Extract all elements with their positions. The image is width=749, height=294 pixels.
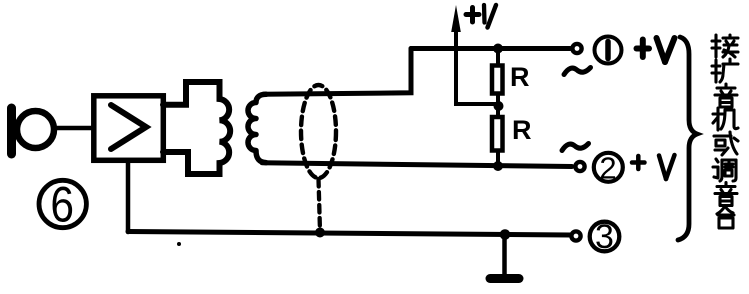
- wire top rail to terminal 1: [411, 46, 570, 51]
- junction +V feed / resistor midpoint: [494, 101, 504, 111]
- transformer T1 primary winding (with amp output stub leads): [163, 82, 230, 174]
- char 调: [713, 159, 736, 181]
- junction ground rail / ground lead: [500, 229, 511, 240]
- svg-text:6: 6: [50, 176, 74, 232]
- wire shield to ground rail (dashed): [319, 179, 321, 231]
- char 音 (2nd): [715, 183, 737, 206]
- speck: [177, 242, 181, 246]
- svg-text:R: R: [512, 115, 532, 145]
- label ~ terminal 2: [562, 144, 589, 151]
- power +V arrow: [451, 5, 461, 104]
- char 或: [714, 132, 738, 155]
- char 扩: [712, 59, 738, 82]
- wire R2 bottom lead: [496, 151, 500, 166]
- wire ground rail to terminal 3: [128, 232, 570, 236]
- node 1 (circled): [595, 37, 622, 64]
- wire bottom rail secondary to terminal 2: [262, 163, 572, 167]
- node 2 (circled): [594, 151, 623, 186]
- brace: [678, 37, 697, 240]
- resistor R2: [492, 117, 503, 151]
- op-amp A1 (amplifier box): [94, 96, 164, 161]
- label 接扩音机或调音台 (vertical Chinese text, drawn strokes): [712, 35, 738, 228]
- label +V terminal 1: [637, 38, 675, 62]
- label + V terminal 2: [632, 155, 675, 179]
- wire mic to amp: [55, 126, 93, 131]
- svg-text:2: 2: [599, 151, 616, 186]
- wire secondary top to bend: [263, 49, 411, 95]
- svg-text:3: 3: [595, 218, 614, 256]
- char 机: [713, 108, 738, 130]
- wire amp bottom to ground rail: [126, 161, 131, 232]
- junction shield / ground rail: [315, 228, 325, 238]
- label +V (supply, handwritten): [466, 5, 496, 28]
- wire +V feed to resistor midpoint: [456, 100, 498, 104]
- figure number 6 (circled): [39, 176, 86, 232]
- svg-text:R: R: [510, 62, 530, 92]
- terminal 3 open circle: [571, 231, 580, 240]
- node 3 (circled): [590, 218, 620, 256]
- ground: [490, 235, 519, 279]
- wire R1 top lead: [496, 49, 500, 64]
- transformer T1 secondary winding: [248, 94, 266, 162]
- char 音: [715, 84, 737, 107]
- junction bottom rail / R2: [493, 161, 503, 171]
- terminal 2 open circle: [575, 162, 584, 171]
- cable shield (dashed screen ellipse): [301, 85, 336, 178]
- resistor R1: [492, 66, 503, 94]
- microphone MIC: [12, 108, 55, 154]
- junction top rail / R1: [493, 44, 503, 54]
- label ~ terminal 1: [564, 68, 591, 75]
- char 台: [717, 206, 734, 228]
- terminal 1 open circle: [572, 44, 581, 53]
- char 接: [712, 35, 738, 57]
- wire between R1 and R2: [496, 94, 500, 117]
